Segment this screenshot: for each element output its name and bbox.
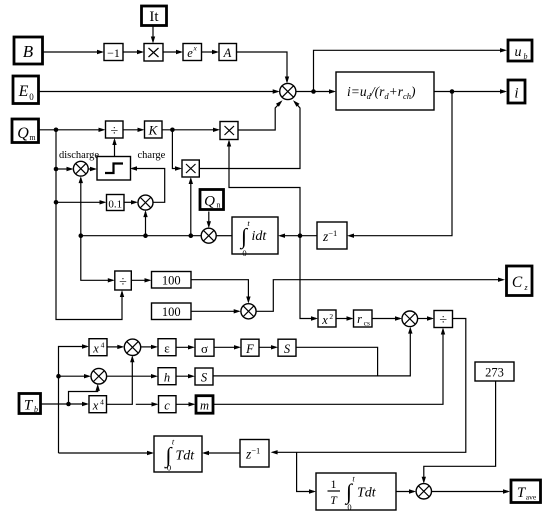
wire Tb to x4 row3 with node	[42, 403, 88, 405]
wire c100 multiplier up and right to Cz	[256, 280, 503, 312]
wire row1 multiplier to epsilon	[141, 346, 156, 348]
wire m right then up into divider3 bottom	[213, 330, 443, 405]
wire divider1 to K	[123, 129, 143, 131]
node Qm trunk at 0.1 row	[54, 200, 59, 205]
svg-text:÷: ÷	[439, 313, 447, 328]
wire X1 to exp	[163, 51, 181, 53]
block x squared	[318, 310, 336, 327]
source block E0	[13, 76, 39, 104]
wire A to sum top	[237, 52, 288, 82]
svg-text:S: S	[284, 342, 291, 356]
svg-text:Q: Q	[17, 125, 29, 142]
wire switch up to divider1 bottom	[114, 140, 116, 157]
node Qm trunk at discharge row	[54, 167, 59, 172]
integrator block int T dt	[154, 436, 202, 472]
sink block Cz	[507, 266, 533, 296]
multiplier X1	[144, 44, 163, 62]
source block B	[14, 37, 43, 64]
wire F to S row1	[259, 346, 276, 348]
svg-text:B: B	[23, 42, 34, 61]
svg-text:A: A	[223, 46, 232, 60]
node at 145.5	[143, 233, 148, 238]
block epsilon	[158, 339, 176, 356]
divider block 2	[115, 271, 132, 290]
wire up into discharge multiplier bottom	[80, 178, 82, 236]
svg-text:charge: charge	[138, 150, 166, 161]
svg-text:2: 2	[329, 312, 333, 321]
wire Tave multiplier to Tave sink	[432, 491, 509, 493]
wire down and right into divider2	[81, 236, 113, 281]
svg-text:r: r	[357, 312, 362, 326]
wire x2 to rcs	[336, 318, 352, 320]
wire divider2 to 100 upper	[131, 279, 150, 281]
divider block 1	[106, 121, 124, 138]
svg-text:ave: ave	[526, 493, 537, 502]
source block It	[142, 6, 167, 26]
multiplier X2	[220, 122, 238, 140]
svg-text:i: i	[514, 86, 518, 102]
Qn multiplier circle	[201, 228, 216, 243]
wire 100 lower to c100 multiplier left	[191, 310, 239, 312]
svg-text:m: m	[29, 133, 36, 142]
node on i line	[450, 89, 455, 94]
wire node down to x2 squared block	[300, 236, 316, 319]
wire x4 row3 to corner up into row1 multiplier bottom	[107, 357, 133, 404]
svg-text:discharge: discharge	[59, 150, 99, 161]
svg-text:m: m	[200, 399, 209, 413]
wire X2 output to sum lower-left diagonal	[238, 102, 281, 130]
wire -1 to X1	[123, 51, 142, 53]
wire K to X2	[162, 129, 218, 131]
svg-text:h: h	[164, 370, 170, 384]
block c	[159, 396, 177, 413]
wire epsilon to sigma	[176, 346, 193, 348]
svg-text:0.1: 0.1	[108, 199, 122, 211]
wire 0.1 to charge multiplier	[124, 201, 136, 203]
node T trunk at row2	[56, 374, 61, 379]
svg-text:4: 4	[100, 397, 104, 406]
svg-text:273: 273	[485, 366, 504, 380]
wire exp to A	[202, 51, 218, 53]
svg-text:x: x	[193, 44, 198, 53]
wire sum to big block, junction, up to ub	[296, 91, 334, 93]
svg-text:n: n	[217, 201, 221, 210]
block sigma	[195, 339, 214, 356]
wire E0 to sum left	[39, 91, 278, 93]
svg-text:−1: −1	[107, 46, 120, 60]
svg-text:F: F	[245, 342, 254, 356]
wire T trunk vertical with branches to x4 row2 and integrator T	[59, 452, 153, 454]
wire x4 row1 to row1 multiplier	[107, 346, 122, 348]
wire h to S row2	[176, 375, 193, 377]
sink block Tave	[511, 480, 541, 503]
block x4 row1	[89, 339, 107, 356]
svg-text:cs: cs	[364, 319, 370, 328]
gain block 0.1	[107, 195, 125, 211]
svg-text:b: b	[524, 52, 528, 61]
svg-text:0: 0	[29, 92, 34, 102]
wire Tb node bent up into row2 multiplier bottom	[69, 386, 98, 404]
block S row2	[195, 368, 213, 385]
svg-text:4: 4	[101, 340, 105, 349]
wire branch down into averaging block	[297, 452, 314, 491]
svg-text:Q: Q	[204, 194, 215, 210]
switch block	[97, 157, 131, 181]
wire 100 upper right then down into c100 multiplier top	[191, 280, 248, 302]
svg-text:0: 0	[242, 248, 246, 258]
wire charge multiplier right up into switch right	[132, 169, 165, 203]
charge multiplier circle	[138, 195, 153, 210]
sum junction circle	[280, 83, 296, 99]
wire B to -1	[44, 51, 103, 53]
svg-text:0: 0	[347, 502, 351, 512]
wire trunk to discharge multiplier	[56, 168, 72, 170]
wire node up and left into X2 bottom	[229, 142, 300, 236]
delay block z-1 first	[317, 222, 347, 249]
svg-text:ε: ε	[164, 341, 170, 356]
source block Tb	[19, 394, 41, 414]
svg-text:S: S	[201, 371, 208, 385]
svg-text:e: e	[187, 46, 193, 60]
divider block 3	[434, 311, 453, 328]
wire up to ub	[314, 50, 506, 91]
wire r multiplier to divider3	[418, 318, 432, 320]
row1 multiplier circle	[124, 339, 140, 355]
svg-text:x: x	[321, 313, 328, 327]
wire distribution line y236 from discharge trunk to Qn multiplier	[81, 235, 201, 237]
r multiplier circle	[402, 311, 418, 327]
wire row2 multiplier to h	[106, 375, 156, 377]
svg-text:u: u	[515, 45, 522, 60]
svg-text:x: x	[92, 342, 99, 356]
wire S row2 right then up into r multiplier bottom	[213, 329, 410, 376]
svg-text:100: 100	[162, 274, 181, 288]
gain block K	[145, 121, 163, 138]
wire 273 down left and into Tave multiplier top	[424, 382, 496, 482]
wire Qn multiplier to integrator	[216, 235, 232, 237]
constant block 100 lower	[152, 303, 192, 320]
wire sigma to F	[214, 346, 239, 348]
block i=ud/(rd+rch)	[336, 72, 434, 110]
multiplier X3	[182, 160, 199, 177]
block exp	[183, 44, 202, 61]
constant block 273	[475, 362, 514, 381]
svg-text:x: x	[92, 399, 99, 413]
sink block i	[508, 80, 525, 103]
wire Qm to divider1	[39, 129, 104, 131]
node on sum output	[311, 89, 316, 94]
wire into c	[136, 403, 157, 405]
svg-text:1: 1	[331, 477, 337, 491]
averaging block 1/T int T dt	[316, 473, 396, 510]
wire c to m	[176, 403, 194, 405]
wire S row1 right then down to row2 line	[296, 347, 378, 376]
wire divider3 output right down and left into z-1 second	[273, 319, 466, 453]
wire up into X3 bottom	[190, 179, 192, 236]
wire trunk to 0.1	[56, 201, 105, 203]
wire z-1 to integrator with node	[280, 235, 317, 237]
wire big block to i	[434, 91, 505, 93]
c100 multiplier circle	[241, 304, 256, 319]
svg-text:Tdt: Tdt	[357, 486, 377, 501]
svg-text:Tdt: Tdt	[176, 449, 196, 464]
block S row1	[278, 339, 296, 356]
svg-text:K: K	[148, 123, 159, 138]
block A	[219, 44, 237, 61]
wire K node down to X3 left	[172, 130, 180, 169]
node at 190.8	[189, 233, 194, 238]
node at 80.8	[79, 233, 84, 238]
svg-text:0: 0	[167, 463, 171, 473]
svg-text:b: b	[34, 405, 38, 414]
svg-text:÷: ÷	[110, 124, 118, 139]
wire discharge multiplier to switch	[88, 168, 95, 170]
wire averaging block to Tave multiplier	[396, 491, 414, 493]
wire rcs to r multiplier	[372, 318, 400, 320]
node after K	[170, 128, 175, 133]
svg-text:σ: σ	[201, 341, 208, 356]
svg-text:E: E	[18, 83, 29, 100]
gain block -1	[104, 44, 123, 61]
svg-text:It: It	[149, 9, 159, 25]
svg-text:C: C	[512, 274, 523, 291]
source block Qn	[200, 190, 224, 210]
block rcs	[354, 310, 373, 327]
wire i feedback down to z-1	[349, 92, 452, 236]
block x4 row3	[89, 396, 107, 413]
wire up into charge multiplier bottom	[145, 212, 147, 236]
wire Qn down into Qn multiplier top	[208, 212, 210, 227]
block m bold	[196, 396, 213, 414]
wire z-1 second to integrator T	[204, 452, 240, 454]
svg-text:÷: ÷	[119, 275, 127, 290]
sink block ub	[508, 40, 532, 61]
discharge multiplier circle	[73, 161, 88, 176]
block F	[241, 339, 259, 356]
integrator block int i dt	[232, 217, 278, 254]
wire It to multiplier X1	[152, 26, 154, 42]
Tave multiplier circle	[416, 484, 431, 499]
wire T trunk to row2 multiplier	[59, 375, 90, 377]
svg-text:100: 100	[162, 305, 181, 319]
node after Qm	[54, 128, 59, 133]
constant block 100 upper	[152, 272, 192, 289]
svg-text:idt: idt	[252, 229, 268, 244]
svg-text:c: c	[164, 398, 170, 412]
row2 multiplier circle	[91, 368, 107, 384]
source block Qm	[12, 119, 39, 143]
wire X3 output right and up to sum lower-right diagonal	[199, 102, 300, 169]
block h	[158, 368, 176, 385]
wire Qm vertical trunk down to bottom corner and divider2 bottom	[56, 130, 122, 320]
delay block z-1 second	[240, 440, 269, 468]
